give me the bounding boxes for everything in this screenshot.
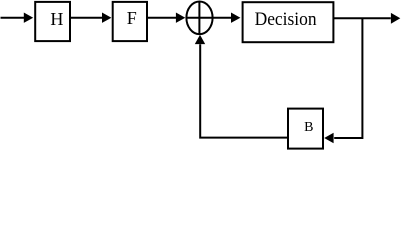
block B xyxy=(288,109,323,149)
summer plus horizontal xyxy=(186,17,212,19)
svg-text:B: B xyxy=(304,120,313,135)
block Decision xyxy=(243,2,334,42)
block H xyxy=(35,2,70,41)
arrowhead into B xyxy=(324,133,333,143)
wire feedback tap down and left to B xyxy=(334,18,362,138)
arrowhead summer to Decision xyxy=(231,13,240,23)
svg-text:F: F xyxy=(127,8,137,28)
arrowhead F to summer xyxy=(176,13,185,23)
summer S1 xyxy=(186,2,212,35)
arrowhead output xyxy=(391,13,400,24)
wire summer to Decision xyxy=(213,17,231,19)
arrowhead input xyxy=(24,13,33,23)
wire F to summer xyxy=(147,17,176,19)
block F xyxy=(113,2,147,41)
wire B to summer xyxy=(200,44,288,137)
arrowhead H to F xyxy=(102,13,111,23)
summer plus vertical xyxy=(198,2,200,35)
wire output xyxy=(333,17,390,19)
wire H to F xyxy=(70,17,102,19)
arrowhead into summer xyxy=(195,35,205,44)
svg-text:H: H xyxy=(50,9,63,29)
svg-text:Decision: Decision xyxy=(255,10,317,30)
wire input xyxy=(1,17,25,19)
